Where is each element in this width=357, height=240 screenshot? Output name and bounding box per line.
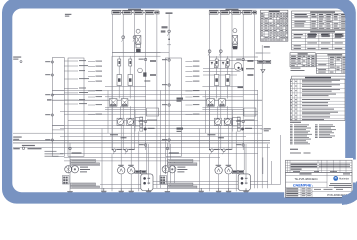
label: feeder list 3: [45, 155, 59, 158]
wire: cluster link 2.2: [202, 96, 243, 98]
wire: feeder F2 riser: [261, 45, 263, 188]
wire: bottom tie 2: [100, 183, 281, 185]
wire: transformer T2 drop: [166, 143, 168, 166]
wire: drop 1.9: [146, 144, 148, 170]
surge arrester F1 at y140.0: [162, 139, 170, 141]
surge arrester LA4: [45, 114, 53, 116]
ground G22: [216, 188, 221, 195]
wire: drop 1.17: [129, 106, 131, 118]
contactor 42-21: [214, 75, 219, 99]
label: feeder F1 note: [162, 26, 168, 28]
label: lv cable tag 1b: [121, 137, 127, 138]
wire: F2 branch: [256, 52, 263, 54]
label: company address: [329, 183, 352, 188]
breaker schedule table: [290, 53, 315, 67]
load stub label 2.1: [185, 61, 199, 62]
protective relay arrow at x221.8: [222, 62, 225, 65]
feeder tap stub 8: [64, 103, 87, 104]
wire: drop 2.2: [208, 56, 210, 149]
load stub label 1.6: [88, 90, 102, 91]
svg-text:TE-PV8-48004E04: TE-PV8-48004E04: [294, 177, 318, 181]
riser instrument at y59.5: [139, 58, 147, 60]
wire: meter link 2: [203, 70, 241, 72]
wire: riser 1: [111, 14, 113, 150]
battery tank BT2: [238, 174, 250, 191]
switchgear enclosure SG1: [68, 58, 84, 156]
fuse unit FU12: [121, 99, 128, 107]
wire: drop 1.11: [156, 150, 158, 188]
wire: contactor drop 1b: [129, 56, 131, 74]
wire: riser 4: [242, 14, 244, 150]
station meter circle: [234, 63, 254, 71]
title block zone backing: [284, 158, 353, 198]
label: junction J1: [148, 128, 155, 129]
label: circuit title: [226, 9, 239, 10]
engineering company logo: [333, 176, 350, 181]
cable tag box 2: [123, 11, 132, 14]
wire: drop 1.2: [111, 56, 113, 149]
transformer T2 primary: [162, 166, 169, 173]
label: meter tags right: [177, 98, 184, 132]
wire: riser 3: [231, 14, 233, 150]
feeder tap stub 4: [64, 78, 89, 79]
wire: bottom tie 1: [148, 181, 268, 183]
revision history table: [286, 160, 353, 172]
wire: cluster link 1.2: [105, 96, 146, 98]
disconnect DS21: [215, 59, 218, 66]
equipment tag box low 2.2: [168, 186, 197, 188]
wire: drop 1.6: [130, 126, 132, 167]
wire: drop 2.15: [271, 161, 273, 184]
wire: drop 1.19: [134, 110, 136, 132]
wire: riser 2: [220, 14, 222, 150]
riser instrument at y59.5: [236, 58, 244, 60]
metering stack VT relay right: [232, 29, 238, 50]
circuit breaker 52 at x220.8: [219, 50, 222, 57]
wire: metering bus 2: [60, 128, 262, 130]
wire: drop 2.16: [217, 106, 219, 118]
cable tag box F2b: [265, 60, 271, 63]
label: panel tag 2a: [247, 60, 253, 62]
wire: dc bus 1: [60, 111, 258, 113]
wire: lv bus 2: [60, 136, 246, 138]
wire: drop 1.18: [107, 90, 109, 133]
label: feeder F1 tag: [166, 12, 173, 14]
motor M11: [118, 165, 125, 174]
abbreviations title: [290, 122, 301, 123]
cable tag box 3: [232, 11, 241, 14]
label: sheet note top-left: [65, 14, 72, 17]
equipment tag box low 1.2: [71, 186, 100, 188]
wire: drop 2.9: [243, 144, 245, 170]
label: schedule totals 1: [291, 68, 301, 69]
wire: drop 2.12: [257, 90, 259, 188]
transformer data table: [292, 11, 354, 30]
feeder breaker 52-21: [209, 149, 220, 154]
cable tag end box: [156, 11, 159, 14]
wire: drop 2.8: [235, 132, 237, 192]
fuse unit FU21: [207, 99, 215, 107]
load stub label 1.3: [88, 71, 102, 72]
wire: mcc bus upper: [13, 140, 270, 142]
feeder breaker 52-11: [112, 149, 123, 154]
current transformer F2: [260, 128, 270, 131]
wire: drop 1.12: [159, 90, 161, 188]
general notes header bar: [292, 76, 346, 79]
wire: aux feeder run 3: [64, 160, 200, 162]
wire: drop 1.1: [101, 129, 103, 192]
wire: meter link 1: [203, 68, 234, 70]
disconnect on T2 drop: [166, 147, 179, 153]
motor M22: [225, 165, 232, 174]
wire: riser 4: [145, 14, 147, 150]
wire: drop 2.17: [227, 106, 229, 118]
wire: drop 2.11: [253, 150, 255, 188]
ground G24: [243, 188, 248, 195]
general notes table: [290, 79, 345, 120]
relay aux box 2: [226, 64, 229, 68]
node: tag splice 1: [218, 12, 220, 13]
wire: drop 2.13: [262, 158, 264, 175]
node: tag splice 2: [132, 12, 134, 13]
wire: transformer T1 drop: [69, 143, 71, 166]
contactor 42-11: [117, 75, 122, 99]
load stub label 1.9: [88, 114, 102, 115]
title block divider: [311, 188, 313, 197]
label: panel tag 1b: [150, 74, 156, 76]
riser instrument at y121.5: [139, 120, 147, 122]
transformer T1 primary: [65, 166, 72, 173]
cable tag box 1: [209, 11, 218, 14]
label: station service 4x tag: [47, 99, 52, 100]
cable tag box 2: [220, 11, 229, 14]
wire: contactor drop 2b: [227, 56, 229, 74]
battery charger tag 2B: [238, 170, 244, 173]
contactor 42-22: [225, 75, 230, 99]
label: relay tag right: [238, 86, 244, 88]
utility meter symbol 1: [13, 147, 24, 149]
equipment rating table: [292, 30, 354, 50]
abbreviations column 1: [290, 124, 312, 144]
title block: [286, 173, 353, 198]
wire: aux feeder run 2: [64, 157, 220, 159]
wire: drop 2.5: [218, 174, 220, 188]
surge arrester LA2: [45, 74, 53, 76]
label: CT ratio 1: [147, 120, 157, 121]
blue frame corner band over title zone: [342, 182, 357, 206]
fuse unit FU22: [219, 99, 226, 107]
wire: drop 2.3: [208, 154, 210, 191]
utility meter symbol 2: [28, 148, 42, 149]
wire: aux feeder run 1: [60, 153, 258, 155]
node: tag splice 4: [154, 12, 156, 13]
current transformer F1 tick: [167, 44, 171, 46]
label: feeder F2 tag: [264, 46, 270, 47]
wire: drop 2.1: [198, 129, 200, 192]
wire: transformer T2 tail: [166, 173, 168, 191]
wire: drop 1.15: [173, 161, 175, 184]
circuit breaker 52 at x209.6: [208, 50, 211, 57]
node: cable bracket: [209, 9, 256, 11]
wire: drop 1.14: [169, 144, 171, 188]
abbreviations column 2: [315, 124, 336, 138]
load stub label 1.8: [88, 104, 102, 105]
wire: drop 1.8: [138, 132, 140, 192]
wire: drop 1.16: [119, 106, 121, 118]
reference drawings title: [290, 149, 298, 150]
wire: aux bus: [68, 119, 258, 121]
current transformer CT2B: [224, 118, 231, 125]
disconnect on T1 drop: [69, 147, 82, 153]
wire: cluster link 1.1: [105, 86, 146, 88]
load stub label 2.3: [185, 71, 199, 72]
svg-text:CHEMPHE o: CHEMPHE o: [293, 184, 314, 188]
fuse unit FU11: [109, 99, 117, 107]
approval table: [286, 188, 313, 197]
feeder breaker 52-12: [124, 149, 135, 154]
surge arrester F1 at y85.0: [162, 84, 170, 86]
wire: drop 2.4: [218, 126, 220, 167]
relay aux box 1: [214, 64, 218, 68]
ground G14: [146, 188, 151, 195]
ground below T2: [165, 191, 170, 195]
test block TB2: [233, 118, 240, 126]
feeder tap stub 2: [64, 65, 88, 66]
wire: cluster link 1.4: [105, 109, 146, 111]
load stub label 2.8: [185, 104, 199, 105]
label: panel tag 1a: [150, 60, 156, 62]
load stub label 2.7: [185, 96, 199, 97]
wire: control bus 2: [52, 93, 258, 95]
wire: riser 3: [134, 14, 136, 150]
load stub label 2.9: [185, 114, 199, 115]
wire: cluster link 2.1: [202, 86, 243, 88]
ground G11: [101, 188, 106, 195]
battery charger tag 2A: [232, 170, 238, 173]
node: junction J2: [241, 128, 244, 131]
cable tag box 4: [243, 11, 252, 14]
disconnect switch F1: [161, 30, 171, 36]
wire: drop 1.4: [120, 126, 122, 167]
wire: cubicle divider 1: [52, 89, 64, 91]
surge arrester F1 at y105.0: [162, 104, 170, 106]
delta winding symbol F2: [261, 69, 265, 72]
wire: drop 1.13: [165, 158, 167, 175]
svg-text:Hunterton: Hunterton: [339, 178, 350, 181]
wire: mcc feeder run: [13, 146, 270, 148]
surge arrester LA3: [45, 94, 53, 96]
motor M21: [215, 165, 222, 174]
current transformer CT2A: [214, 118, 221, 125]
wire: tie to feeder F2: [256, 52, 271, 54]
wire: meter link 3: [203, 74, 237, 76]
load stub label 2.5: [185, 81, 199, 82]
label: junction J2: [245, 128, 252, 129]
panel schedule table: [316, 54, 353, 74]
wire: feeder F1 riser: [168, 14, 170, 150]
label: schedule totals 2: [291, 70, 305, 71]
node: tag splice 3: [143, 12, 145, 13]
surge arrester LA5: [45, 139, 53, 141]
load stub label 2.2: [185, 66, 199, 67]
wire: main MV bus A lower: [112, 55, 161, 57]
node: F1 junction: [168, 38, 170, 40]
wire: station service bus: [52, 99, 262, 101]
meter circle M1: [138, 68, 151, 81]
aux panel box 2: [244, 108, 256, 116]
wire: cubicle divider 2: [52, 93, 64, 95]
feeder breaker 52-22: [221, 149, 232, 154]
wire: contactor drop 2a: [216, 56, 218, 74]
terminal column 2: [237, 117, 240, 131]
ground G13: [129, 188, 134, 195]
wire: drop 2.6: [228, 126, 230, 167]
wire: drop 1.3: [111, 154, 113, 191]
switchgear enclosure SG2: [165, 58, 181, 156]
wire: main MV bus A: [112, 52, 161, 54]
label: incoming line note mid: [13, 137, 22, 140]
disconnect DS12: [129, 59, 132, 66]
load stub label 1.7: [88, 96, 102, 97]
ground G12: [119, 188, 124, 195]
equipment tag box low 1.1: [71, 183, 96, 185]
node: tag splice 1: [121, 12, 123, 13]
load stub label 1.1: [88, 61, 102, 62]
test block TB1: [135, 118, 142, 126]
aux panel box 1: [147, 108, 159, 116]
wire: main MV bus B lower: [210, 59, 258, 61]
cable tag box F2a: [258, 60, 264, 63]
label: feeder list 1: [45, 150, 57, 153]
sheet margin white right: [353, 160, 357, 183]
wire: riser 2: [122, 14, 124, 150]
wire: metering bus 1: [52, 125, 262, 127]
wire: drop 1.7: [130, 174, 132, 188]
disconnect DS22: [226, 59, 229, 66]
ground G21: [199, 188, 204, 195]
label: transformer T2 data: [177, 167, 187, 173]
label: scale row: [312, 189, 352, 192]
label: panel tag 2b: [247, 74, 253, 76]
wire: aux riser right: [280, 135, 282, 184]
feeder tap stub 1: [64, 60, 86, 61]
node: tag splice 3: [241, 12, 243, 13]
surge arrester F1 at y60.0: [162, 59, 170, 61]
load stub label 1.4: [88, 76, 102, 77]
equipment tag box low 2.1: [168, 183, 193, 185]
wire: drop 2.7: [228, 174, 230, 188]
rectifier box R1: [63, 176, 70, 185]
riser instrument at y145.0: [139, 144, 147, 146]
wire: lv bus long: [13, 132, 262, 134]
wire: drop 1.5: [120, 174, 122, 188]
contactor 42-12: [128, 75, 133, 99]
load stub label 2.4: [185, 76, 199, 77]
label: transformer T1 data: [80, 167, 90, 173]
wire: drop 2.18: [204, 90, 206, 133]
riser instrument at y121.5: [236, 120, 244, 122]
wire: cubicle divider 3: [52, 124, 64, 126]
wire: transformer T1 tail: [69, 173, 71, 191]
wire: drop 2.10: [245, 144, 247, 184]
white outer corner: [342, 200, 357, 206]
wire: riser 5: [156, 14, 158, 150]
equipment tag box 2.2: [168, 163, 197, 166]
wire: main MV bus B: [210, 56, 258, 58]
wire: mcc bus lower: [13, 142, 270, 144]
label: circuit title: [128, 9, 141, 10]
incoming feeder cubicle outline: [52, 58, 64, 157]
label: incoming line note top: [13, 57, 22, 63]
wire: riser 5: [253, 14, 255, 150]
equipment tag box 2.1: [168, 160, 193, 163]
node: cable bracket: [112, 9, 159, 11]
wire: control bus 1: [52, 89, 258, 91]
feeder tap stub 7: [64, 99, 85, 100]
wire: contactor drop 1a: [118, 56, 120, 74]
load stub label 2.6: [185, 90, 199, 91]
wire: cluster link 2.3: [202, 107, 243, 109]
terminal column 1: [140, 117, 143, 131]
wire: bottom tie 3: [100, 187, 250, 189]
wire: riser 1: [209, 14, 211, 150]
cable tag box 3: [134, 11, 143, 14]
rectifier box R2: [160, 176, 167, 185]
metering stack VT relay left: [135, 29, 141, 52]
riser instrument at y145.0: [236, 144, 244, 146]
protective relay arrow at x210.6: [211, 62, 214, 65]
feeder tap stub 3: [64, 70, 85, 71]
circuit breaker 52 at x134.5: [133, 36, 136, 53]
wire: cubicle divider 4: [52, 129, 64, 131]
label: mcc bus tag: [22, 145, 35, 146]
current transformer CT1A: [117, 118, 124, 125]
motor M12: [128, 165, 135, 174]
wire: cluster link 1.3: [105, 107, 146, 109]
cable tag box 1: [112, 11, 121, 14]
cable schedule table: [261, 10, 288, 41]
surge arrester LA1: [45, 61, 53, 63]
wire: tie to feeder F1: [161, 52, 170, 54]
label: lv cable tag 2a: [207, 134, 215, 135]
node: junction J1: [144, 128, 147, 131]
disconnect DS11: [118, 59, 121, 66]
transformer T2 secondary: [169, 166, 176, 173]
reference drawing entry: [290, 153, 311, 154]
cable tag box 4: [145, 11, 154, 14]
wire: drop 2.14: [267, 144, 269, 188]
battery charger tag 1A: [135, 170, 141, 173]
node: tag splice 2: [230, 12, 232, 13]
label: CT ratio 2: [244, 120, 254, 121]
circuit breaker 52 at x123.2: [122, 36, 125, 53]
label: feeder list 2: [45, 152, 64, 155]
equipment tag box 1.2: [71, 163, 100, 166]
wire: dc bus 2: [64, 113, 258, 115]
wire: drop 1.10: [148, 144, 150, 184]
load stub label 1.2: [88, 66, 102, 67]
equipment tag box 1.1: [71, 160, 96, 163]
cable tag end box: [253, 11, 256, 14]
wire: cluster link 2.4: [202, 109, 243, 111]
transformer T1 secondary: [71, 166, 78, 173]
feeder tap stub 5: [64, 88, 86, 89]
node: tag splice 4: [252, 12, 254, 13]
current transformer CT1B: [127, 118, 134, 125]
ground G23: [226, 188, 231, 195]
ground below T1: [67, 191, 72, 195]
load stub label 1.5: [88, 81, 102, 82]
